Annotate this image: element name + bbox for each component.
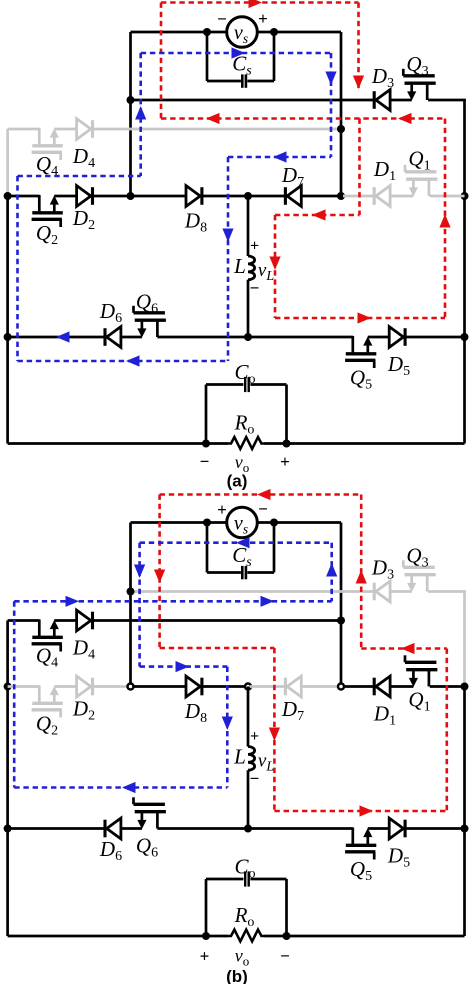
blue loop (b) arrow y=666	[176, 661, 190, 672]
transistor Q5	[345, 336, 376, 368]
red loop (a) arrow right	[249, 0, 263, 8]
svg-text:(b): (b)	[226, 967, 248, 984]
red loop (b) arrow top	[257, 489, 271, 500]
red loop (a) left vertical	[160, 3, 163, 119]
node right rail at D1 row	[461, 683, 469, 691]
node output right	[283, 932, 291, 940]
polarity labels of v_s	[217, 9, 268, 29]
diode D2	[77, 676, 93, 697]
diode D8	[186, 676, 202, 697]
svg-text:+: +	[217, 500, 227, 519]
wire Q5 row	[248, 336, 465, 339]
blue loop (b) arrows y=601	[66, 596, 275, 607]
wire D8 segment	[133, 195, 248, 198]
wire left vertical x=130	[129, 523, 132, 687]
blue loop (b) left vertical	[13, 601, 16, 787]
polarity labels of v_L	[250, 238, 260, 298]
blue loop (a) bottom horizontal	[18, 360, 229, 363]
wire Q3 source to right rail	[428, 99, 466, 102]
transistor Q3	[403, 69, 435, 101]
svg-text:+: +	[250, 238, 259, 255]
wire Q5 row	[248, 827, 465, 830]
blue current arrow on D6 wire	[56, 331, 70, 342]
wire D8 segment	[133, 685, 248, 688]
blue loop (b) horizontal y=601	[14, 600, 332, 603]
blue loop (a) arrow y=361	[126, 355, 140, 366]
red loop (b) vertical x=274	[273, 648, 276, 811]
node on x=130 at D3 row	[127, 96, 135, 104]
svg-text:L: L	[233, 254, 246, 278]
wire top rail	[131, 31, 342, 34]
svg-text:+: +	[250, 728, 259, 745]
red loop (a) mid horizontal	[161, 117, 445, 120]
red loop (a) stub down to D3 wire	[357, 3, 360, 89]
svg-text:+: +	[200, 947, 210, 966]
node left rail at D2 row	[4, 192, 12, 200]
red loop (a) mid arrows	[206, 113, 412, 124]
diode D7	[285, 186, 301, 207]
wire D1 row	[343, 195, 465, 198]
node right rail at D5 row	[461, 333, 469, 341]
node: source left tap	[203, 28, 211, 36]
diode D1	[374, 676, 390, 697]
blue loop (b) arrow y=542	[236, 537, 250, 548]
svg-text:(a): (a)	[227, 472, 248, 491]
diode D6	[105, 818, 121, 839]
red loop (b) left vertical	[158, 495, 161, 649]
transistor Q2	[32, 686, 63, 718]
wire D2 row	[8, 685, 131, 688]
red loop (a) vertical x=275	[274, 215, 277, 318]
diode D5	[389, 818, 405, 839]
red loop (b) horizontal y=648 left	[160, 647, 275, 650]
red loop (b) arrow y=648	[401, 643, 415, 654]
node output right	[283, 440, 291, 448]
node inductor top	[244, 192, 252, 200]
wire inductor branch upper	[247, 687, 250, 747]
node output left	[202, 440, 210, 448]
transistor Q4	[32, 128, 63, 160]
svg-text:+: +	[258, 9, 268, 28]
node right rail at D5 row	[461, 825, 469, 833]
wire right vertical rail	[463, 592, 466, 687]
node on x=130 at D3 row	[127, 588, 135, 596]
svg-text:−: −	[217, 10, 227, 29]
red loop (b) bottom horizontal	[274, 810, 446, 813]
inductor L	[248, 747, 255, 771]
blue loop (a) arrow y=157	[273, 151, 287, 162]
red loop (a) arrow y=215	[312, 209, 326, 220]
inductor L	[248, 256, 255, 280]
transistor Q1	[405, 165, 437, 197]
blue loop (b) arrow x=227	[222, 717, 233, 731]
blue loop (b) right vertical	[330, 543, 333, 602]
node left rail at D6 row	[4, 333, 12, 341]
red loop (a) arrow x=445	[439, 214, 450, 228]
red loop (a) arrow y=318	[358, 312, 372, 323]
transistor Q3	[403, 560, 435, 592]
blue loop (a) horizontal y=176	[18, 175, 141, 178]
transistor Q2	[32, 195, 63, 227]
red loop (b) vertical x=361	[360, 495, 363, 649]
capacitor C_o	[206, 377, 287, 444]
node inductor bottom	[244, 825, 252, 833]
resistor R_o	[228, 437, 264, 449]
blue loop (a) arrow x=228	[222, 229, 233, 243]
diode D1	[374, 186, 390, 207]
red loop (a) vertical x=359	[358, 119, 361, 216]
diode D2	[77, 186, 93, 207]
wire D7 segment	[250, 195, 341, 198]
node D7 right junction	[337, 192, 345, 200]
red loop (a) arrow x=275	[269, 257, 280, 271]
diode D4	[77, 119, 93, 140]
blue loop (b) top segment	[140, 541, 332, 544]
wire mid vertical x=341	[340, 523, 343, 687]
blue loop (b) horizontal y=666	[140, 665, 228, 668]
node D7 right junction	[338, 684, 344, 690]
wire bottom rail	[8, 935, 465, 938]
node inductor top	[245, 684, 251, 690]
svg-text:L: L	[233, 745, 246, 769]
capacitor C_s	[207, 32, 274, 88]
red loop (a) stub arrow	[353, 76, 364, 90]
wire D4 row	[8, 619, 341, 622]
node: source right tap	[270, 28, 278, 36]
node on x=341 at D4 row	[337, 617, 345, 625]
wire D3 row	[131, 590, 412, 593]
blue loop (b) arrow x=139	[134, 565, 145, 579]
red loop (b) top segment	[160, 493, 362, 496]
capacitor C_o	[206, 871, 287, 936]
wire D2 row	[8, 195, 131, 198]
wire inductor branch lower	[247, 280, 250, 337]
node left rail at D6 row	[4, 825, 12, 833]
node: source right tap	[270, 519, 278, 527]
wire inductor branch upper	[247, 196, 250, 256]
wire D3 row	[131, 99, 412, 102]
diode D7	[285, 676, 301, 697]
wire left vertical x=130	[129, 32, 132, 196]
red loop (b) horizontal y=648 right	[361, 647, 447, 650]
blue loop (b) bottom horizontal	[14, 786, 227, 789]
blue loop (a) top segment	[141, 52, 331, 55]
polarity labels of v_s	[217, 500, 268, 520]
red loop (b) right vertical	[445, 649, 448, 812]
blue loop (a) vertical x=228	[227, 157, 230, 361]
resistor R_o	[228, 930, 264, 942]
transistor Q5	[345, 828, 376, 860]
capacitor C_s	[207, 523, 274, 580]
wire bottom rail	[8, 442, 465, 445]
wire far-left vertical	[6, 621, 9, 937]
node: source left tap	[203, 519, 211, 527]
wire D1 row	[343, 685, 465, 688]
wire D6 row	[8, 827, 248, 830]
node left rail at D2 row	[4, 683, 12, 691]
svg-text:−: −	[250, 279, 260, 298]
blue loop (a) horizontal y=157	[228, 156, 331, 159]
node D2-D8 junction	[128, 684, 134, 690]
diode D5	[389, 327, 405, 348]
node output left	[202, 932, 210, 940]
blue loop (a) arrow y=53	[232, 47, 246, 58]
svg-text:+: +	[280, 452, 290, 471]
diode D3	[374, 90, 390, 111]
polarity labels of v_o	[200, 947, 290, 966]
svg-text:−: −	[280, 947, 290, 966]
diode D4	[77, 610, 93, 631]
blue loop (b) vertical x=139	[138, 543, 141, 667]
blue loop (a) vertical x=140	[139, 53, 142, 176]
transistor Q4	[32, 620, 63, 652]
wire right vertical rail	[463, 100, 466, 444]
diode D8	[186, 186, 202, 207]
polarity labels of v_o	[200, 452, 290, 471]
red loop (b) arrow x=361	[356, 570, 367, 584]
transistor Q6	[134, 797, 166, 829]
wire inductor branch lower	[247, 770, 250, 828]
wire mid vertical x=341	[340, 32, 343, 196]
red loop (b) arrow left vertical	[154, 570, 165, 584]
node right rail at D1 row	[461, 192, 469, 200]
blue loop (a) right vertical	[330, 53, 333, 157]
node on x=341 at D4 row	[337, 125, 345, 133]
wire top rail	[131, 521, 342, 524]
red loop (a) right vertical	[444, 119, 447, 319]
diode D6	[105, 327, 121, 348]
blue loop (b) arrow y=787	[122, 782, 136, 793]
svg-text:−: −	[250, 769, 260, 788]
voltage source v_s	[227, 507, 258, 538]
diode D3	[374, 581, 390, 602]
transistor Q6	[134, 306, 166, 338]
svg-text:−: −	[258, 500, 268, 519]
blue loop (a) arrow x=331	[325, 72, 336, 86]
red loop (a) top segment	[161, 1, 359, 4]
blue loop (b) vertical x=227	[226, 667, 229, 788]
red loop (b) arrow bottom	[360, 805, 374, 816]
node D2-D8 junction	[127, 192, 135, 200]
wire D6 row	[8, 336, 248, 339]
red loop (a) bottom horizontal	[275, 317, 445, 320]
transistor Q1	[405, 655, 437, 687]
blue loop (b) arrow x=331	[326, 563, 337, 577]
wire D4 row	[8, 128, 341, 131]
blue loop (a) left vertical	[16, 176, 19, 361]
wire far-left vertical	[6, 129, 9, 196]
wire Q3 source to right rail	[428, 590, 466, 593]
red loop (b) arrow x=274	[269, 728, 280, 742]
red loop (a) horizontal y=215	[275, 214, 360, 217]
svg-text:−: −	[200, 452, 210, 471]
node inductor bottom	[244, 333, 252, 341]
voltage source v_s	[227, 17, 258, 48]
polarity labels of v_L	[250, 728, 260, 788]
blue loop (a) arrow x=140	[135, 106, 146, 120]
wire D7 segment	[250, 685, 341, 688]
